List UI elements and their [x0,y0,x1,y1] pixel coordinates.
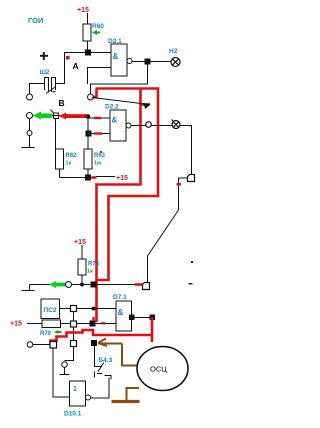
junction row1 / red A [91,282,97,288]
inverter bubble D10.1 [86,395,91,400]
wire D2.2 input2 [88,133,110,135]
probe arrowhead [143,103,151,109]
wire diagonal down-left [148,210,179,256]
wire D10.1 out [91,378,110,399]
wire rail to +15 [96,176,115,178]
plug terminal right [188,175,195,182]
svg-text:R60: R60 [92,23,104,30]
resistor R62 [56,119,64,178]
wire to socket [65,347,74,361]
resistor R60 [83,13,91,52]
junction row3 [90,321,96,327]
svg-text:+15: +15 [10,321,22,328]
svg-text:A: A [73,61,79,71]
resistor R63 [84,119,92,178]
oscilloscope OSC [137,347,188,391]
connector pin (node of D2.2 source) [88,94,94,100]
svg-text:R73: R73 [88,262,100,268]
wire terminal stack [73,312,75,322]
inverter bubble D2.1 [127,59,132,64]
svg-text:ГОИ: ГОИ [28,16,43,25]
gate D2.1 [111,44,127,76]
svg-text:H2: H2 [169,48,178,55]
socket symbol [60,362,70,375]
wire pin to terminal [33,344,50,346]
brown probe arrow to E4.3 [98,339,122,347]
red tick above row3 junction [92,317,94,321]
svg-text:&: & [113,52,119,61]
ground stub row1 [22,285,66,291]
svg-text:+15: +15 [77,7,89,14]
node marker A (red dot) [66,56,70,60]
resistor R73 [78,245,86,285]
junction dot B row [86,114,91,119]
speck dot right [191,261,193,263]
lamp H2 [171,58,180,67]
svg-text:ПС2: ПС2 [44,307,57,314]
svg-text:1к: 1к [87,269,93,275]
red overlay input1 [94,117,101,119]
svg-text:Ш2: Ш2 [40,69,51,76]
junction D7.1 output edge [129,315,135,321]
wire vertical to plug2 [147,256,149,283]
red segment row1 right [135,283,143,286]
junction at lamp branch [145,59,151,65]
wire D2.1 input2 [88,68,112,85]
svg-text:R63: R63 [94,153,106,159]
pin marker on ground stub [27,131,32,136]
svg-text:1м: 1м [94,161,101,167]
junction R73 bottom [80,283,84,287]
connector pin B row [27,113,33,119]
green arrow row1 [49,281,66,288]
svg-text:D10.1: D10.1 [64,411,82,418]
green arrow R70 [54,330,62,334]
wire pin to Sh2 [30,84,35,95]
wire plug to drop wire [179,178,188,210]
svg-text:R62: R62 [66,153,78,159]
plus test mark [40,52,48,60]
wire L down to D10.1 [53,348,70,397]
svg-text:+15: +15 [74,239,86,246]
svg-text:&: & [112,116,118,125]
connector pin (left of Sh2) [27,94,33,100]
junction input2 [86,131,92,137]
red overlay input2 [94,132,102,134]
speck dash right [189,283,193,285]
gate D7.1 [116,301,132,331]
wire R62/R63 bottom rail [60,177,97,179]
svg-text:&: & [118,308,124,317]
resistor R70 [27,320,71,328]
svg-text:D2.2: D2.2 [105,104,119,111]
box PS2 [41,299,60,319]
svg-text:+15: +15 [116,175,128,182]
green arrow (R60 value mark) [92,30,100,35]
junction R63 bottom [85,175,91,181]
red net B: pin to D2.2 loop [94,89,159,281]
junction dot row2 [92,307,96,311]
ground stub below pin B [22,119,35,148]
plug terminal mid [143,283,150,290]
red net A: arrow node down to D7.1 [97,89,151,323]
brown wire to scope [122,344,137,366]
brown ground bar [112,400,140,403]
wire B row [33,115,89,117]
connector Sh2 engage mark [46,87,56,94]
junction R60/row [85,50,91,56]
red tick on drop [177,183,182,186]
wire row1 [72,284,143,286]
wire PS2 out [60,308,71,310]
contact mark B row [51,110,59,119]
wire lamp2 to right drop [180,126,192,175]
wire node-A row y=52 [65,53,112,85]
contact E4.3 [95,346,112,380]
pin circle on out wire [146,122,152,128]
gate D10.1 [70,381,86,406]
junction square E4.3 [91,340,97,346]
connector pin bottom-left [27,342,33,348]
red tick on rail [92,176,97,179]
wire row3 to D7.1 [77,323,117,325]
connector pin row1 [66,282,72,288]
wire lamp junction down-left [91,65,148,95]
wire D2.2 input1 [88,117,110,119]
lamp (second, with tick) [172,120,181,129]
wire D2.1 out to lamp [132,61,171,63]
red speck R63 [100,151,102,153]
red net C staircase [51,330,153,346]
svg-text:R70: R70 [40,331,52,337]
red net C vertical at out node [151,318,154,343]
wire D7.1 out [134,317,151,319]
svg-text:ОСЦ: ОСЦ [150,365,167,374]
wire row2 to D7.1 [77,308,117,310]
wire stack down [73,327,75,341]
wire D2.2 out [131,125,172,127]
svg-text:В: В [59,98,65,108]
terminal square L [50,342,57,349]
connector Sh2 [34,77,65,92]
terminal square 2 [71,321,77,327]
red tick row3 [102,322,106,325]
svg-text:1к: 1к [66,161,72,167]
terminal square 1 [71,306,77,312]
svg-text:1: 1 [73,386,77,393]
terminal square 3 [71,341,77,347]
inverter bubble D2.2 [126,123,131,128]
red arrow B row [59,113,88,120]
junction out node [150,315,156,321]
green arrow B row [33,112,52,120]
brown scope ground lead [127,388,140,400]
wire diagonal probe [92,98,145,105]
svg-text:Б4.3: Б4.3 [99,357,113,364]
svg-text:D7.1: D7.1 [113,294,127,301]
wire branch down [87,117,89,134]
gate D2.2 [110,110,126,141]
